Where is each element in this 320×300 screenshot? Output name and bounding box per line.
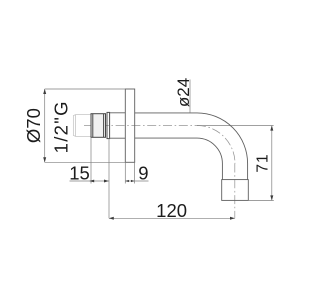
centerline vertical dash-dot xyxy=(234,164,236,219)
centerline horizontal dash-dot xyxy=(84,125,197,127)
dim 15 extension line at x109 down to 120 dim xyxy=(108,139,110,219)
spout tube horizontal walls xyxy=(135,113,197,138)
nut xyxy=(91,114,106,138)
dim 120 line xyxy=(109,217,235,219)
dim 9 arrows xyxy=(125,180,134,182)
dim 71 arrows xyxy=(270,125,273,200)
dim 120 arrows xyxy=(109,217,235,220)
dim 15 extension line at x91 xyxy=(90,137,92,183)
thread 1/2"G body xyxy=(73,115,91,137)
dim O70 arrows xyxy=(43,89,46,163)
spout bend inner arc xyxy=(197,138,222,163)
dia 24 leader line xyxy=(189,80,191,113)
svg-text:15: 15 xyxy=(69,162,90,183)
svg-text:Ø70: Ø70 xyxy=(23,108,44,143)
svg-text:71: 71 xyxy=(254,153,271,172)
svg-text:1/2"G: 1/2"G xyxy=(51,100,72,153)
wall flange plate xyxy=(125,89,134,162)
body between ring and wall plate xyxy=(110,113,126,138)
spout end cap xyxy=(222,180,249,201)
dim 9 line xyxy=(125,180,148,182)
spout bend outer arc xyxy=(197,113,248,164)
svg-text:120: 120 xyxy=(156,200,187,221)
ring washer xyxy=(107,112,110,138)
dim 15 line xyxy=(70,180,110,182)
dim O70 extension lines xyxy=(45,89,126,162)
spout vertical tube walls xyxy=(222,164,247,180)
svg-text:ø24: ø24 xyxy=(174,78,193,107)
dim 71 line xyxy=(271,126,273,201)
centerline bend arc dash-dot xyxy=(197,126,235,164)
dim 71 bottom extension xyxy=(248,199,273,201)
centerline solid extension to 71 dim xyxy=(197,125,274,127)
svg-text:9: 9 xyxy=(138,162,148,183)
dim 9 extension lines from plate xyxy=(125,162,134,183)
dim O70 line xyxy=(44,89,46,162)
dim 15 arrows xyxy=(89,180,109,183)
